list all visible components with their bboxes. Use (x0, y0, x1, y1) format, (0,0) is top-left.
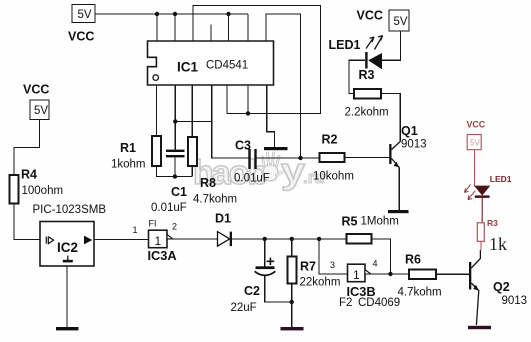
red wire R3 to Q2 collector (480, 241, 482, 250)
wire LED1 to R3 (349, 60, 365, 93)
svg-text:22uF: 22uF (231, 302, 257, 314)
svg-text:9013: 9013 (401, 139, 427, 151)
IC2 output arrow (84, 236, 92, 245)
ground Q2 (468, 326, 491, 329)
svg-text:2: 2 (172, 222, 177, 232)
svg-text:5V: 5V (394, 16, 408, 28)
wire IC1 pin to C3 left (212, 85, 249, 158)
gate IC3B inverter triangle (365, 270, 371, 274)
svg-text:0.01uF: 0.01uF (151, 202, 187, 214)
diode D1 (218, 232, 230, 247)
node dot C1 top (173, 119, 177, 123)
ground IC2 (56, 327, 79, 330)
node dot feedback (298, 156, 302, 160)
ground C2-R7 (281, 327, 304, 330)
wire C3 to R2 node (257, 157, 320, 159)
op IC2 body (40, 222, 94, 267)
wire Q1 emitter to ground (398, 168, 400, 211)
wire node to IC3B pin3 (319, 239, 347, 274)
svg-text:VCC: VCC (23, 83, 49, 97)
svg-text:LED1: LED1 (490, 174, 512, 184)
red wire 5V to LED1 (473, 150, 475, 186)
svg-text:D1: D1 (215, 212, 231, 226)
IC2 internal ground (67, 256, 69, 261)
ground Q1 (388, 210, 409, 213)
gate IC3B body (348, 264, 366, 282)
wire 5V to R4 (14, 120, 40, 176)
svg-text:R4: R4 (21, 168, 37, 182)
node dot C2-R7 (290, 300, 294, 304)
node dot R7 (290, 237, 294, 241)
watermark haoboy.ru (193, 150, 325, 192)
power box 5V top-left (72, 5, 95, 23)
svg-text:1Mohm: 1Mohm (361, 216, 399, 228)
svg-text:R3: R3 (359, 68, 375, 82)
svg-text:VCC: VCC (467, 120, 486, 130)
svg-text:R3: R3 (487, 218, 498, 228)
svg-text:R6: R6 (405, 253, 421, 267)
svg-text:1: 1 (133, 225, 138, 235)
capacitor C3 (248, 149, 250, 169)
svg-text:CD4541: CD4541 (206, 60, 248, 72)
wire IC1 pin to R8 (191, 85, 193, 137)
svg-text:4: 4 (373, 259, 378, 269)
red power box 5V (467, 135, 481, 150)
svg-text:2.2kohm: 2.2kohm (345, 107, 389, 119)
power box 5V left (30, 100, 49, 120)
gate IC3A inverter triangle (167, 234, 173, 239)
wire rail to IC1 top pins (157, 14, 248, 41)
wire R2 to Q1 base (345, 157, 390, 159)
wire IC1 top pin loop C (193, 6, 321, 114)
wire to C2 (264, 239, 266, 266)
node dot C1 bottom (173, 174, 177, 178)
wire IC2 to ground (66, 266, 68, 327)
svg-text:4.7kohm: 4.7kohm (193, 194, 237, 206)
wire R4 to IC2 (14, 204, 40, 240)
svg-text:4.7kohm: 4.7kohm (398, 287, 442, 299)
svg-text:1: 1 (155, 234, 162, 248)
svg-text:100ohm: 100ohm (22, 185, 64, 197)
svg-text:VCC: VCC (68, 30, 94, 44)
red LED1 emission arrows (464, 184, 475, 199)
resistor R2 (320, 153, 345, 162)
svg-text:IC3A: IC3A (148, 248, 177, 263)
LED1 diode (368, 53, 382, 69)
op IC1 CD4541 body (148, 41, 274, 85)
IC2 input arrow (46, 237, 53, 244)
red resistor R3 (477, 223, 484, 242)
svg-text:3: 3 (330, 260, 335, 270)
node dot IC3B-in (317, 237, 321, 241)
node dot rail-1 (155, 12, 159, 16)
svg-text:1k: 1k (489, 234, 507, 254)
wire to R7 (291, 239, 293, 257)
svg-text:0.01uF: 0.01uF (234, 173, 270, 185)
svg-text:CD4069: CD4069 (358, 297, 400, 309)
svg-text:R2: R2 (322, 133, 338, 147)
resistor R3 (354, 89, 381, 99)
wire IC1 pin to ground (267, 85, 275, 147)
svg-text:IC2: IC2 (57, 240, 78, 255)
resistor R6 (409, 270, 436, 279)
svg-text:LED1: LED1 (329, 38, 361, 52)
resistor R1 (152, 136, 161, 166)
svg-text:5V: 5V (78, 9, 92, 21)
node dot C2 (263, 237, 267, 241)
node dot R5-out (388, 272, 392, 276)
transistor Q1 (389, 144, 391, 164)
wire R1 bottom (156, 166, 192, 177)
ground IC1 pin (264, 147, 288, 150)
resistor R4 (10, 175, 19, 204)
node dot rail-3 (226, 12, 230, 16)
svg-text:IC1: IC1 (177, 60, 199, 75)
capacitor C2 electrolytic (256, 266, 275, 269)
svg-text:5V: 5V (34, 105, 48, 117)
power box 5V top-right (389, 10, 409, 31)
node dot rail-2 (173, 12, 177, 16)
node dot pin-bottom (246, 111, 250, 115)
wire R6 to Q2 base (436, 273, 469, 275)
svg-text:10kohm: 10kohm (313, 171, 354, 183)
svg-text:R5: R5 (342, 215, 358, 229)
svg-text:Q2: Q2 (493, 280, 510, 294)
wire IC3A to D1 (173, 238, 218, 240)
svg-text:FI: FI (149, 219, 157, 229)
wire 5V to LED1 (382, 31, 401, 60)
capacitor C1 (166, 150, 185, 152)
wire IC2 out to IC3A (94, 239, 149, 241)
svg-text:22kohm: 22kohm (300, 277, 341, 289)
svg-text:R8: R8 (200, 176, 216, 190)
svg-text:PIC-1023SMB: PIC-1023SMB (33, 204, 107, 216)
svg-text:R1: R1 (120, 141, 136, 155)
svg-text:C2: C2 (244, 284, 260, 298)
wire VCC rail to IC1 (95, 13, 248, 15)
transistor Q2 (469, 262, 471, 290)
svg-text:Q1: Q1 (401, 124, 418, 138)
svg-text:5V: 5V (470, 139, 480, 148)
wire R3 to Q1 collector (381, 94, 400, 142)
resistor R7 (287, 257, 296, 284)
red LED1 diode (475, 186, 490, 195)
resistor R5 (346, 234, 371, 244)
gate IC3A body (149, 230, 168, 248)
pin stub IC1 top (210, 25, 212, 42)
LED1 emission arrows (366, 36, 383, 50)
svg-text:VCC: VCC (357, 9, 383, 23)
svg-text:F2: F2 (339, 297, 352, 309)
wire D1 to node (232, 238, 346, 240)
svg-text:R7: R7 (300, 260, 316, 274)
svg-text:C1: C1 (171, 185, 187, 199)
wire R5 right to output node (372, 239, 391, 274)
wire IC1 pin to R1 (155, 85, 157, 136)
svg-text:9013: 9013 (502, 295, 528, 307)
svg-text:C3: C3 (235, 139, 251, 153)
svg-text:1kohm: 1kohm (111, 159, 146, 171)
resistor R8 (188, 137, 197, 166)
wire IC3B out to R6 (371, 273, 409, 275)
wire IC1 pin to C1 (175, 85, 212, 150)
wire IC1 top pin loop B (266, 14, 301, 158)
pin1 circle IC1 (153, 75, 159, 81)
wire R7 to ground (291, 284, 293, 328)
svg-text:1: 1 (353, 268, 360, 282)
red wire LED1 to R3 (481, 198, 483, 223)
